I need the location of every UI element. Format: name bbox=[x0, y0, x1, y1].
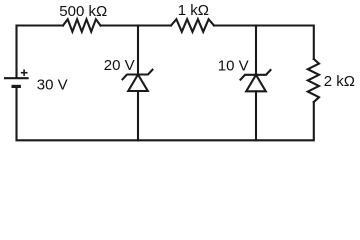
svg-text:1 kΩ: 1 kΩ bbox=[178, 2, 209, 19]
svg-text:20 V: 20 V bbox=[104, 57, 135, 74]
zener D2 triangle bbox=[246, 75, 266, 92]
resistor R 500k zigzag bbox=[63, 19, 101, 31]
zener D2 branch wire top bbox=[255, 26, 257, 75]
plus sign bbox=[22, 72, 27, 74]
resistor R 2k zigzag (vertical) bbox=[308, 59, 319, 102]
zener D1 branch wire bottom bbox=[137, 91, 139, 140]
svg-text:2 kΩ: 2 kΩ bbox=[324, 73, 355, 90]
wire right-bottom bbox=[17, 87, 314, 140]
wire top-left (battery to R 500k) bbox=[17, 26, 64, 78]
wire top-right (R 1k to right corner, node of D2) bbox=[214, 26, 314, 60]
battery V1 short plate bbox=[13, 85, 19, 88]
zener D1 bar with bent ends bbox=[123, 70, 153, 80]
svg-text:30 V: 30 V bbox=[37, 77, 68, 94]
zener D1 branch wire top bbox=[137, 26, 139, 75]
zener D2 bar with bent ends bbox=[241, 70, 271, 80]
battery V1 long plate bbox=[5, 77, 28, 79]
zener D1 triangle bbox=[128, 75, 148, 92]
resistor R 1k zigzag bbox=[171, 19, 214, 32]
wire top-mid (R 500k to R 1k, node of D1) bbox=[101, 24, 172, 26]
svg-text:500 kΩ: 500 kΩ bbox=[59, 3, 107, 20]
svg-text:10 V: 10 V bbox=[218, 57, 249, 74]
zener D2 branch wire bottom bbox=[255, 91, 257, 140]
